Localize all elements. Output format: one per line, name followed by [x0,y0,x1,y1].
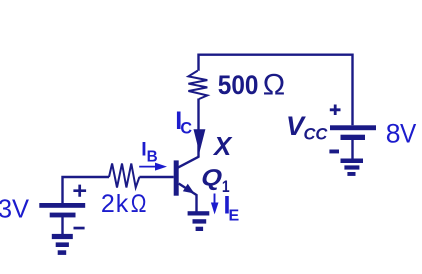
svg-text:8: 8 [386,119,401,149]
transistor Q1 base bar [174,160,179,195]
svg-text:V: V [400,120,416,149]
battery V1 3V positive plate [39,203,85,208]
transistor Q1 emitter with arrowhead [179,184,197,212]
resistor 2k ohm (horizontal zigzag) [109,164,139,188]
svg-text:2: 2 [101,190,115,218]
current arrowhead IC on collector wire [194,129,206,153]
wire battery V2 to ground [351,140,353,160]
ground below battery V2 [341,159,364,164]
battery V1 negative plate [50,213,76,218]
battery V2 plus sign [330,105,341,116]
svg-text:E: E [229,208,240,225]
battery V1 minus sign [74,227,85,230]
battery V1 plus sign [73,185,86,197]
svg-text:CC: CC [304,126,329,144]
label Q1 [198,165,225,191]
svg-text:500: 500 [218,71,259,100]
wire collector diagonal into transistor [178,156,200,167]
resistor 500 ohm (vertical zigzag) [188,71,207,99]
svg-text:k: k [116,190,129,218]
value label 500 [218,71,259,100]
ground below transistor Q1 emitter [188,211,210,215]
svg-text:C: C [180,120,192,138]
wire top rail from resistor top to Vcc battery [199,55,353,126]
battery V2 Vcc positive plate [330,125,376,130]
ground below battery V1 [52,234,73,239]
wire base from battery V1 up and right to transistor [63,177,174,203]
svg-text:3V: 3V [0,196,29,224]
svg-text:X: X [212,133,233,161]
wire collector vertical from resistor to node X [197,99,199,158]
svg-text:Ω: Ω [131,189,147,217]
svg-text:Ω: Ω [263,69,285,102]
battery V2 minus sign [329,150,339,154]
wire battery V1 to ground [61,217,63,235]
current arrow IB (into base) [139,166,156,168]
svg-text:B: B [147,148,158,165]
battery V2 negative plate [341,135,366,140]
current arrow IE (down from emitter) [214,194,216,205]
